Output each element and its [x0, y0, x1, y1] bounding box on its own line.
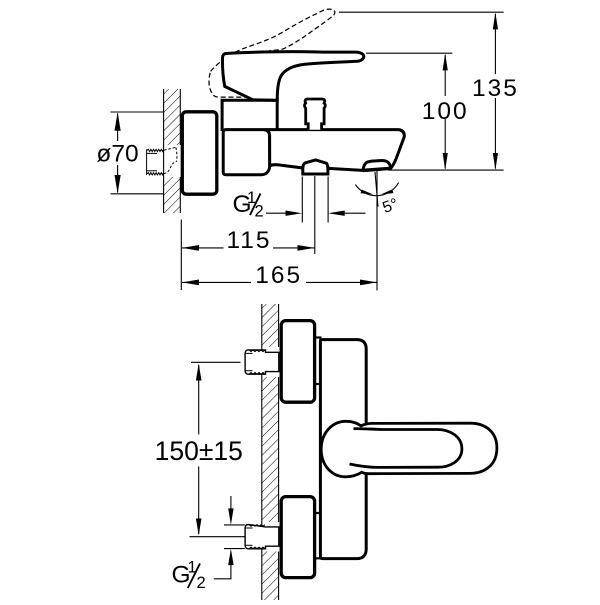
- svg-text:135: 135: [472, 75, 519, 102]
- svg-text:150±15: 150±15: [155, 436, 243, 466]
- svg-text:115: 115: [226, 227, 271, 254]
- svg-text:165: 165: [255, 262, 302, 289]
- svg-text:ø70: ø70: [96, 141, 138, 168]
- svg-text:2: 2: [197, 574, 206, 592]
- svg-text:100: 100: [422, 98, 469, 125]
- svg-text:2: 2: [255, 203, 264, 221]
